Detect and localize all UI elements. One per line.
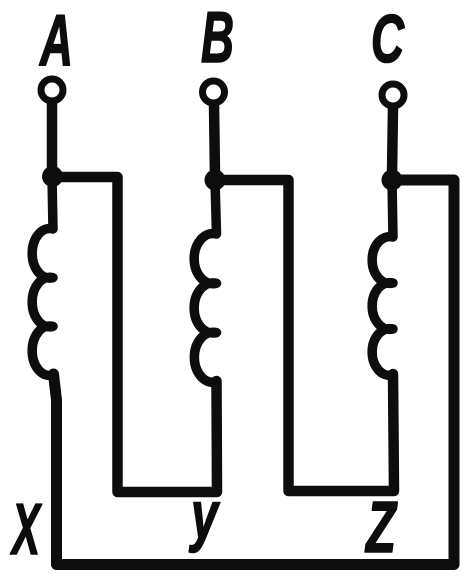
svg-text:Z: Z (365, 488, 398, 568)
wire node A to winding B bottom (delta link A-B) (52, 177, 217, 492)
node C junction (382, 170, 403, 191)
svg-text:C: C (371, 1, 405, 77)
winding C (coil C) (372, 180, 393, 375)
winding A (coil A) (32, 177, 53, 376)
svg-text:A: A (39, 1, 73, 81)
svg-text:y: y (189, 478, 220, 554)
svg-text:B: B (201, 0, 234, 78)
svg-text:X: X (10, 490, 43, 570)
node A junction (42, 166, 63, 187)
wire node B to winding C bottom (delta link B-C) (215, 180, 394, 491)
wire terminal C to node C (392, 108, 393, 176)
node B junction (205, 170, 226, 191)
terminal A (41, 79, 63, 101)
wire terminal A to node A (47, 103, 58, 172)
winding B (coil B) (194, 180, 216, 382)
terminal C (382, 84, 404, 106)
wire node C to winding A bottom (delta link C-A) (54, 180, 455, 565)
terminal B (203, 81, 225, 103)
wire terminal B to node B (214, 105, 215, 176)
